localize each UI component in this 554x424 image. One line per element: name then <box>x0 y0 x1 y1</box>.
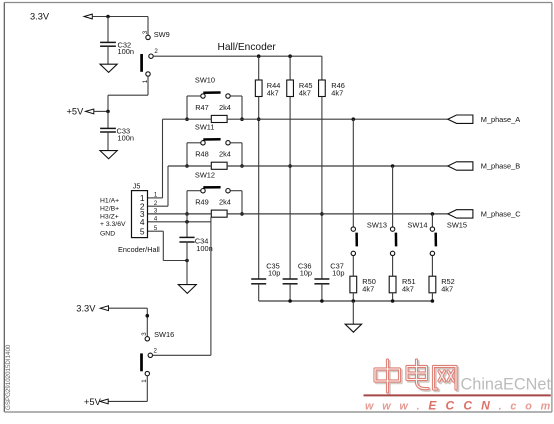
svg-text:R49: R49 <box>195 198 209 207</box>
svg-text:SW9: SW9 <box>154 30 170 39</box>
svg-text:100n: 100n <box>196 244 212 253</box>
svg-text:2: 2 <box>154 48 158 55</box>
svg-text:SW11: SW11 <box>195 122 215 131</box>
svg-text:w w w . E C C N . c o m: w w w . E C C N . c o m <box>365 399 553 413</box>
svg-text:M_phase_A: M_phase_A <box>481 115 521 124</box>
svg-text:4k7: 4k7 <box>267 89 279 98</box>
svg-text:100n: 100n <box>118 47 134 56</box>
svg-text:J5: J5 <box>133 182 141 191</box>
svg-text:SW15: SW15 <box>447 221 467 230</box>
svg-text:GSPG29102015DI1400: GSPG29102015DI1400 <box>5 344 12 410</box>
svg-text:+5V: +5V <box>67 107 85 117</box>
svg-text:SW10: SW10 <box>195 76 215 85</box>
svg-text:4k7: 4k7 <box>362 285 374 294</box>
svg-text:3: 3 <box>142 30 149 34</box>
svg-text:10p: 10p <box>300 269 312 278</box>
svg-text:4k7: 4k7 <box>441 285 453 294</box>
svg-text:4k7: 4k7 <box>402 285 414 294</box>
svg-text:M_phase_C: M_phase_C <box>481 210 522 219</box>
svg-text:3.3V: 3.3V <box>30 12 50 22</box>
svg-text:H1/A+: H1/A+ <box>100 197 119 204</box>
svg-text:R48: R48 <box>195 150 209 159</box>
svg-text:10p: 10p <box>268 269 280 278</box>
svg-text:10p: 10p <box>332 269 344 278</box>
svg-text:4k7: 4k7 <box>299 89 311 98</box>
svg-text:Encoder/Hall: Encoder/Hall <box>118 245 160 254</box>
svg-text:Hall/Encoder: Hall/Encoder <box>218 42 277 53</box>
svg-text:4k7: 4k7 <box>331 89 343 98</box>
svg-text:2k4: 2k4 <box>219 150 231 159</box>
svg-text:ChinaECNet: ChinaECNet <box>461 375 552 393</box>
svg-text:+5V: +5V <box>84 397 102 407</box>
svg-text:100n: 100n <box>118 134 134 143</box>
svg-text:SW13: SW13 <box>367 221 387 230</box>
svg-text:2k4: 2k4 <box>219 103 231 112</box>
svg-text:2k4: 2k4 <box>219 198 231 207</box>
svg-text:SW14: SW14 <box>407 221 427 230</box>
svg-text:2: 2 <box>154 347 158 354</box>
svg-text:+ 3.3/6V: + 3.3/6V <box>100 221 126 228</box>
svg-text:3.3V: 3.3V <box>76 303 96 313</box>
svg-text:GND: GND <box>100 231 115 238</box>
svg-text:M_phase_B: M_phase_B <box>481 162 521 171</box>
svg-text:5: 5 <box>140 226 145 236</box>
svg-text:H3/Z+: H3/Z+ <box>100 213 119 220</box>
svg-text:3: 3 <box>141 332 148 336</box>
svg-text:R47: R47 <box>195 103 209 112</box>
svg-text:SW12: SW12 <box>195 170 215 179</box>
svg-text:SW16: SW16 <box>154 330 174 339</box>
svg-text:H2/B+: H2/B+ <box>100 206 119 213</box>
